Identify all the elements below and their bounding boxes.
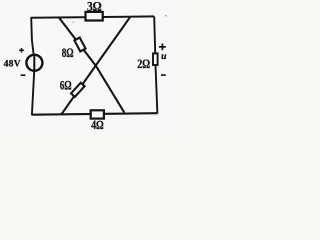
resistor R3 6-ohm (tilted box on slash diagonal) bbox=[71, 83, 85, 97]
speck: faint smudge below top rail bbox=[72, 21, 74, 23]
svg-text:48V: 48V bbox=[4, 59, 21, 70]
wire: left rail lower segment (source down to bottom-left corner) bbox=[32, 72, 34, 115]
voltage source V1 circle (48V source on left rail) bbox=[26, 55, 42, 71]
svg-text:3Ω: 3Ω bbox=[87, 0, 102, 14]
resistor R5 2-ohm (vertical box on right rail) bbox=[153, 53, 158, 65]
resistor R2 8-ohm (tilted box on backslash diagonal) bbox=[74, 38, 85, 52]
voltage source V1 internal vertical line bbox=[33, 54, 35, 72]
svg-text:u: u bbox=[161, 51, 167, 62]
wire: bottom rail from bottom-left corner to bottom-right corner bbox=[31, 113, 157, 115]
wire: top rail from top-left corner to top-right corner bbox=[31, 16, 154, 17]
svg-text:6Ω: 6Ω bbox=[60, 77, 72, 92]
wire: diagonal from top rail through 8-ohm to bottom rail (backslash) bbox=[59, 18, 124, 113]
wire: left rail upper segment (corner down to source) bbox=[31, 17, 33, 54]
label: plus sign of 48V source bbox=[19, 48, 24, 53]
resistor R4 4-ohm (box on bottom rail) bbox=[91, 110, 104, 118]
label: minus sign of voltage u across 2-ohm bbox=[161, 74, 166, 76]
wire: right rail upper segment (top-right corner down to 2-ohm resistor) bbox=[154, 16, 155, 53]
speck: scan noise dot near top-right bbox=[165, 15, 167, 17]
svg-text:8Ω: 8Ω bbox=[62, 45, 74, 60]
wire: right rail lower segment (2-ohm resistor down to bottom-right corner) bbox=[156, 65, 158, 113]
label: plus sign of voltage u across 2-ohm bbox=[159, 44, 166, 51]
label: minus sign of 48V source bbox=[21, 74, 26, 76]
resistor R1 3-ohm (box on top rail) bbox=[86, 12, 103, 21]
svg-text:4Ω: 4Ω bbox=[91, 118, 104, 132]
svg-text:2Ω: 2Ω bbox=[137, 57, 150, 71]
wire: diagonal from bottom rail through 6-ohm to top rail (slash) bbox=[62, 17, 131, 114]
